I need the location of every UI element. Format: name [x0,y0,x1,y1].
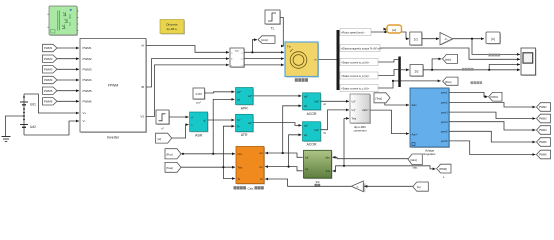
svg-text:<Rotor speed (wm)>: <Rotor speed (wm)> [341,30,365,34]
svg-text:Iabc: Iabc [325,156,330,159]
svg-text:APR: APR [241,106,249,110]
svg-text:pwm5: pwm5 [441,131,448,134]
svg-text:PWM3: PWM3 [83,68,92,72]
svg-text:PWM5: PWM5 [83,89,92,93]
svg-text:PWM5: PWM5 [539,141,547,144]
svg-text:PWM1: PWM1 [44,46,53,50]
svg-text:pwm3: pwm3 [441,111,448,114]
svg-text:conversion: conversion [354,128,368,132]
svg-text:[w]: [w] [417,185,421,189]
svg-text:Ud1: Ud1 [30,102,36,106]
svg-text:<Electromagnetic torque Te (N*: <Electromagnetic torque Te (N*m)> [341,46,382,50]
svg-text:[Teta]: [Teta] [166,166,173,170]
svg-text:[iabc]: [iabc] [445,57,451,61]
svg-text:isq*: isq* [304,125,308,128]
svg-text:Usq*: Usq* [314,129,319,132]
svg-text:TL: TL [271,27,275,31]
svg-text:pwm4: pwm4 [441,121,448,124]
svg-text:[Flux]: [Flux] [445,80,452,84]
svg-text:PWM3: PWM3 [539,118,547,121]
svg-text:ACOR: ACOR [307,112,317,116]
svg-text:1/z: 1/z [414,38,419,42]
svg-text:iq*: iq* [203,120,206,123]
svg-text:Regulator: Regulator [423,152,435,156]
svg-text:<Stator current is_b (A)>: <Stator current is_b (A)> [341,74,370,78]
svg-text:Teta: Teta [238,166,243,169]
svg-text:iA: iA [141,44,144,48]
svg-text:Aain: Aain [412,104,418,107]
svg-text:1/z: 1/z [414,70,419,74]
svg-text:psi*: psi* [237,91,241,94]
svg-text:|u|: |u| [491,37,495,41]
svg-text:wr: wr [260,178,263,181]
svg-text:PWM6: PWM6 [83,100,92,104]
svg-text:V-: V- [83,119,86,123]
svg-text:pwm2: pwm2 [441,102,448,105]
svg-text:Ud2: Ud2 [30,125,36,129]
svg-text:<Stator current is_c (A)>: <Stator current is_c (A)> [341,86,370,90]
svg-text:1e-05 s.: 1e-05 s. [166,27,177,31]
svg-text:Uq*: Uq* [352,109,356,112]
svg-text:Usd*: Usd* [314,100,319,103]
svg-text:Te*: Te* [237,119,241,122]
svg-text:PWM4: PWM4 [539,129,547,132]
svg-text:pwm6: pwm6 [441,140,448,143]
svg-text:Teta: Teta [325,170,330,173]
svg-text:isq*: isq* [248,122,252,125]
svg-text:PWM4: PWM4 [83,78,92,82]
svg-text:V+: V+ [83,111,87,115]
svg-text:PWM6: PWM6 [44,100,53,104]
svg-text:psi: psi [237,99,241,102]
svg-text:PWM4: PWM4 [44,78,53,82]
svg-text:V2: V2 [140,115,144,119]
svg-text:PWM5: PWM5 [44,89,53,93]
svg-text:[Iabc]: [Iabc] [411,158,418,162]
svg-text:ASR: ASR [195,133,203,137]
svg-text:[rotor]: [rotor] [261,38,268,42]
svg-text:[PWM]: [PWM] [439,167,447,171]
svg-text:PWM2: PWM2 [539,106,547,109]
svg-text:-K-: -K- [444,38,447,41]
svg-text:<Stator current is_a (A)>: <Stator current is_a (A)> [341,60,370,64]
svg-text:[Teta]: [Teta] [376,97,383,101]
svg-text:c: c [231,65,232,67]
svg-text:-K-: -K- [356,186,359,188]
svg-text:FPWM: FPWM [108,84,119,88]
svg-text:[w]: [w] [392,28,396,32]
svg-text:PWM3: PWM3 [44,68,53,72]
svg-text:Aain*: Aain* [412,133,418,136]
svg-text:Uabc*: Uabc* [362,109,369,112]
svg-text:Calc: Calc [248,186,255,190]
svg-text:0.83: 0.83 [196,92,202,96]
svg-text:3/2: 3/2 [315,180,319,184]
svg-text:ATR: ATR [241,133,248,137]
svg-text:isd*: isd* [304,95,308,98]
svg-text:iB: iB [141,85,144,89]
svg-text:[Flux]: [Flux] [166,152,173,156]
svg-text:Ud*: Ud* [352,101,356,104]
svg-text:c: c [242,65,243,67]
svg-text:Flux: Flux [238,153,243,156]
svg-text:[w]: [w] [158,137,162,141]
svg-text:Inverter: Inverter [107,136,120,140]
svg-text:PWM6: PWM6 [539,154,547,157]
svg-text:PWM2: PWM2 [44,57,53,61]
svg-text:PWM1: PWM1 [491,96,499,99]
svg-text:Tm: Tm [287,45,292,49]
svg-text:n*: n* [191,116,193,119]
svg-text:PWM1: PWM1 [83,46,92,50]
svg-text:isd*: isd* [248,95,252,98]
svg-text:PWM2: PWM2 [83,57,92,61]
svg-text:Teta: Teta [352,118,357,121]
svg-text:ACOR: ACOR [307,143,317,147]
svg-text:Vabc: Vabc [235,51,239,53]
svg-text:Discrete: Discrete [166,23,178,27]
svg-text:pwm1: pwm1 [441,92,448,95]
svg-text:Iabc: Iabc [413,166,418,169]
